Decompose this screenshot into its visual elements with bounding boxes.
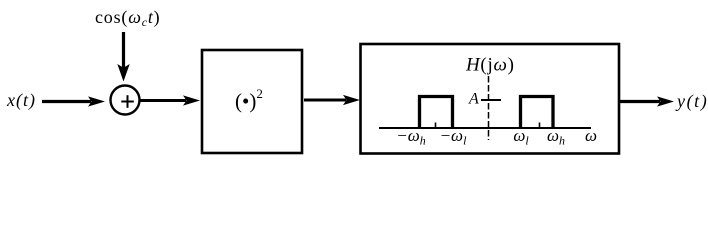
svg-text:ω: ω	[585, 126, 597, 145]
svg-text:y(t): y(t)	[675, 91, 708, 112]
plus sign	[121, 95, 134, 108]
svg-text:H(jω): H(jω)	[465, 55, 515, 76]
svg-text:A: A	[468, 91, 479, 108]
tick at omega_c	[539, 123, 541, 129]
svg-text:cos(ωct): cos(ωct)	[95, 7, 160, 29]
block U1 squarer	[202, 50, 302, 153]
amplitude axis vertical	[488, 76, 490, 140]
svg-text:x(t): x(t)	[6, 90, 36, 111]
wire squarer to filter block	[304, 95, 360, 105]
tick at amplitude A	[481, 99, 501, 101]
wire input arrow to adder	[42, 96, 105, 106]
svg-text:−ωl: −ωl	[440, 126, 467, 148]
block U2 bandpass filter	[361, 44, 620, 154]
tick at -omega_c	[435, 123, 437, 129]
wire adder to squarer block	[141, 95, 201, 105]
wire filter to output	[620, 96, 674, 106]
filter passband right pulse	[521, 97, 554, 129]
wire cos source down to adder	[117, 32, 129, 82]
frequency axis omega	[379, 127, 591, 129]
filter passband left pulse	[420, 97, 453, 129]
adder (summing junction)	[111, 86, 140, 115]
